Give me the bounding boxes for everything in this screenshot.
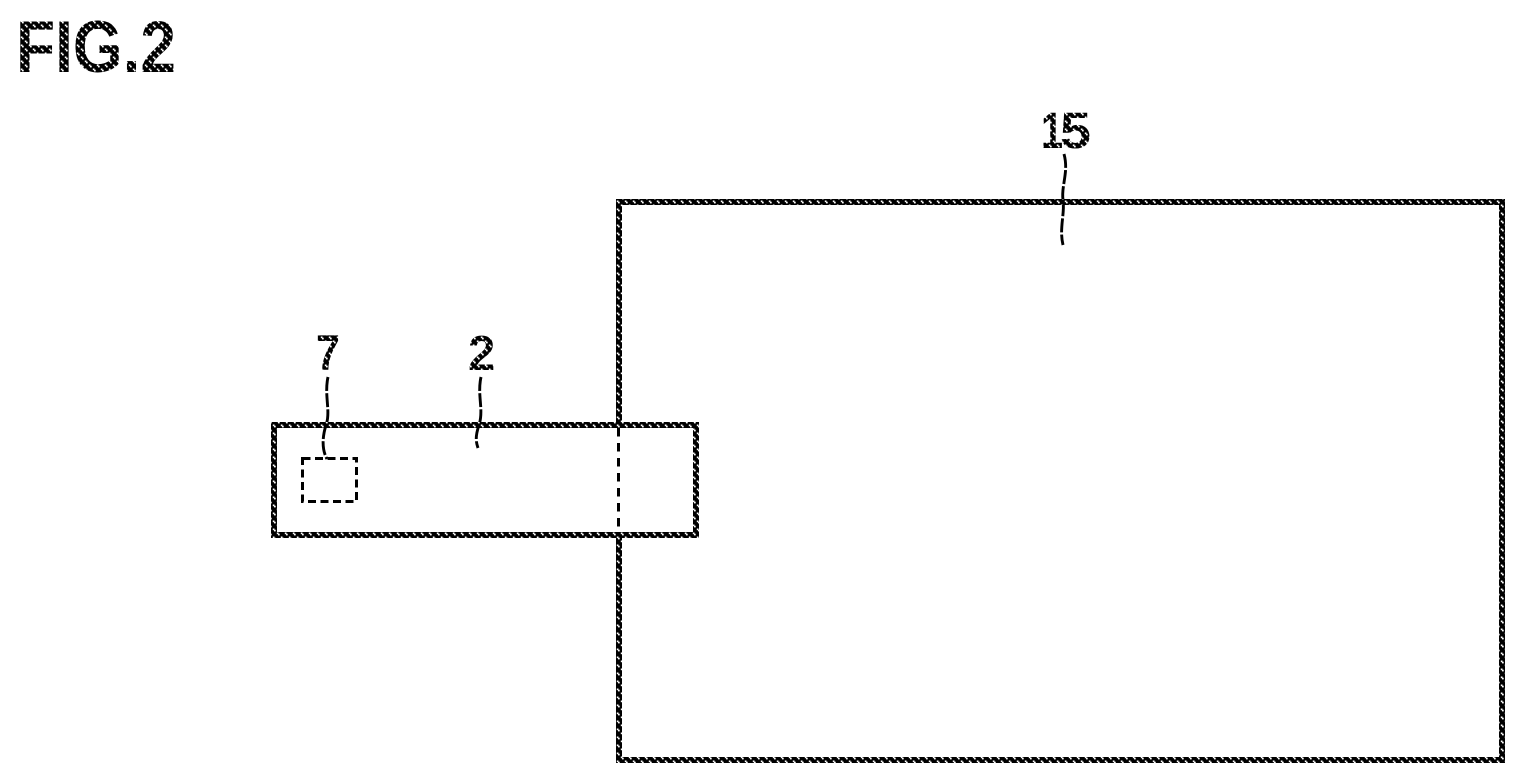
rectangle 15: hidden left edge through rectangle 2 (dashed) xyxy=(617,428,620,532)
rectangle 15: left border lower segment xyxy=(616,536,622,763)
rectangle 15: right border xyxy=(1499,199,1505,763)
svg-text:FIG.2: FIG.2 xyxy=(16,7,176,88)
svg-text:5: 5 xyxy=(1060,102,1091,159)
leader line for 7 xyxy=(323,377,328,459)
svg-text:2: 2 xyxy=(468,327,495,381)
svg-text:7: 7 xyxy=(316,325,340,381)
leader line for 2 xyxy=(476,377,481,448)
rectangle 15: bottom border xyxy=(616,757,1505,763)
rectangle 2: left border xyxy=(271,422,277,538)
rectangle 15: left border upper segment xyxy=(616,199,622,424)
rectangle 2: bottom border xyxy=(271,532,699,538)
dashed region 7 inside rectangle 2 xyxy=(303,459,357,502)
rectangle 2: top border xyxy=(271,422,699,428)
rectangle 15: top border xyxy=(616,199,1505,205)
leader line for 15 xyxy=(1062,154,1066,245)
rectangle 2: right border xyxy=(693,422,699,538)
